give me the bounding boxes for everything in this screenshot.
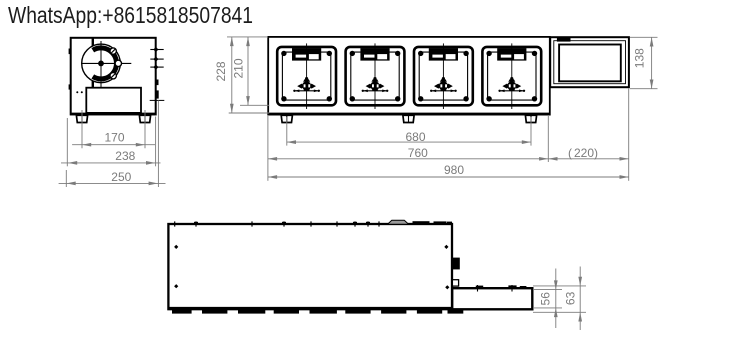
svg-text:WhatsApp:+8615818507841: WhatsApp:+8615818507841 (8, 2, 253, 28)
svg-text:56: 56 (539, 292, 553, 306)
svg-text:63: 63 (564, 291, 578, 305)
svg-text:250: 250 (111, 170, 131, 184)
svg-text:680: 680 (405, 130, 425, 144)
svg-text:238: 238 (115, 149, 135, 163)
svg-text:760: 760 (408, 146, 428, 160)
svg-text:228: 228 (214, 61, 228, 81)
svg-text:980: 980 (444, 163, 464, 177)
svg-text:(220): (220) (568, 146, 598, 160)
svg-text:210: 210 (231, 58, 245, 78)
svg-text:138: 138 (633, 48, 647, 68)
svg-text:170: 170 (104, 131, 124, 145)
